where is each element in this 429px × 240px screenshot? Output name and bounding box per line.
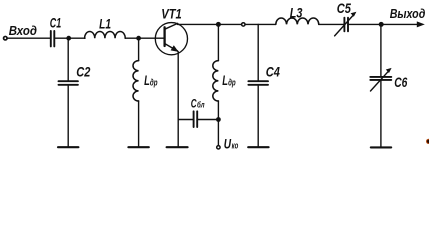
node dot at Sbl junction — [216, 117, 221, 122]
svg-text:C1: C1 — [50, 16, 61, 31]
ground C6 — [371, 146, 391, 148]
wire input to C1 — [7, 37, 50, 39]
svg-text:ко: ко — [232, 141, 239, 151]
capacitor C5 — [344, 18, 348, 32]
svg-text:Вход: Вход — [9, 23, 37, 38]
svg-text:L1: L1 — [99, 16, 111, 31]
ground L dr 1 — [128, 146, 148, 148]
svg-text:др: др — [150, 77, 158, 87]
svg-text:L3: L3 — [290, 5, 303, 20]
svg-text:бл: бл — [197, 100, 205, 110]
top rail collector to L3 — [177, 23, 275, 25]
transistor VT1 — [155, 23, 187, 55]
terminal ring on rail — [242, 23, 245, 26]
terminal Uko ring — [217, 146, 220, 149]
ground C4 — [248, 146, 268, 148]
node dot top left — [216, 22, 221, 27]
svg-text:C2: C2 — [76, 65, 91, 80]
capacitor C1 — [51, 31, 55, 46]
wire L1 to node B — [125, 37, 164, 39]
capacitor C4 — [248, 24, 268, 146]
ground C2 — [58, 146, 78, 148]
node dot top right — [379, 22, 384, 27]
svg-text:C4: C4 — [266, 65, 281, 80]
svg-text:др: др — [228, 77, 236, 87]
wire C1 to L1 — [55, 37, 85, 39]
svg-text:C5: C5 — [337, 1, 352, 16]
svg-text:U: U — [224, 136, 232, 151]
emitter wire down — [177, 52, 179, 146]
C6 arrow — [371, 68, 392, 91]
inductor L3 — [276, 18, 319, 24]
wire L3 to C5 — [319, 23, 344, 25]
inductor L1 — [85, 32, 126, 39]
choke L dr 2 — [213, 24, 219, 145]
capacitor Sbl — [178, 111, 218, 127]
output arrow — [417, 21, 425, 27]
C5 arrow — [335, 12, 357, 36]
ground emitter — [167, 146, 188, 148]
input terminal — [4, 36, 8, 40]
svg-text:C6: C6 — [394, 75, 408, 90]
node A (junction dot) — [66, 36, 71, 41]
node B (junction dot) — [136, 36, 141, 41]
choke L dr 1 — [133, 38, 139, 146]
svg-text:VT1: VT1 — [161, 7, 181, 22]
svg-text:С: С — [191, 96, 197, 110]
wire C5 to output — [349, 23, 418, 25]
capacitor C2 — [59, 38, 78, 146]
svg-text:Выход: Выход — [390, 6, 426, 21]
stray orange dot — [426, 139, 429, 144]
capacitor C6 — [370, 24, 391, 146]
